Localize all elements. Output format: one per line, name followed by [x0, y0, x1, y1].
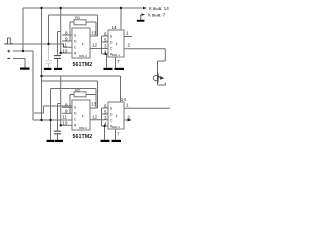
wire: C4 top lead	[57, 104, 59, 132]
svg-text:11: 11	[62, 114, 67, 119]
ground: lower left bar	[47, 140, 55, 142]
wire: pin 4 stub right lower FF	[102, 125, 109, 127]
ground: lower right FF R bar	[101, 140, 110, 142]
wire: pin 5 stub right lower FF	[102, 113, 108, 115]
flip-flop DD1.2 (561ТМ2) box	[72, 28, 90, 58]
wire: pin 8 stub DD2.2	[62, 106, 72, 108]
wire: pin 8 stub DD1.2	[62, 34, 72, 36]
wire: pin 1 stub upper right FF	[124, 36, 132, 38]
ground: minus input ground bar	[20, 68, 30, 70]
wire: R1 left lead down to pin 9	[69, 22, 71, 41]
wire: jog to decoupling cap C2	[58, 31, 61, 33]
wire: left drop from rail to + input	[22, 8, 24, 51]
wire: S/R tie right lower FF	[101, 108, 103, 126]
wire: resistor R1 right lead	[86, 21, 96, 23]
wire: lower loop second run right drop	[95, 89, 97, 109]
svg-text:1: 1	[126, 30, 129, 35]
wire: step vertical of set line	[43, 106, 45, 113]
wire: pin 2 stub lower with arrow	[124, 119, 128, 121]
svg-text:13: 13	[91, 30, 97, 35]
wire: loop drop to ground through clock node	[50, 89, 52, 140]
flip-flop DD2.2 (561ТМ2) box	[72, 100, 90, 130]
wire: + input line	[13, 50, 33, 52]
wire: pin 6 stub right upper FF	[102, 35, 109, 37]
wire: drop to lower right FF pin 14	[120, 76, 122, 102]
pin numbers DD1.1	[104, 25, 131, 64]
wire: input signal line to pin 11 of DD1.2	[4, 44, 72, 47]
svg-text:4: 4	[104, 49, 107, 54]
wire: element top lead	[157, 61, 159, 85]
wire: supply drop to lower S/R and cap C4	[60, 76, 62, 125]
wire: C4 bottom lead lower	[57, 134, 59, 140]
svg-text:13: 13	[91, 101, 97, 106]
ground: pin 7 bar lower	[112, 140, 122, 142]
wire: S/R tie right upper FF	[101, 36, 103, 54]
wire: rail drop at x=42.5 feeding lower half	[41, 8, 43, 120]
wire: pin 10 stub DD2.2	[61, 124, 72, 126]
wire: +supply top rail	[23, 7, 143, 9]
resistor R2	[74, 92, 86, 97]
svg-text:3: 3	[104, 116, 107, 121]
wire: pin 13 stub DD1.2	[90, 35, 98, 37]
resistor R1	[74, 20, 86, 25]
svg-text:10: 10	[62, 48, 68, 53]
wire: C2 bottom lead	[57, 58, 59, 67]
wire: element bottom hook	[158, 83, 166, 86]
svg-text:561ТМ2: 561ТМ2	[73, 62, 93, 68]
wire: pin 12 to pin 3 clock link lower	[90, 119, 108, 121]
pin numbers DD1.2	[62, 30, 97, 53]
wire: pin 9 stub DD2.2	[62, 112, 72, 114]
svg-text:DD1.1: DD1.1	[112, 53, 120, 57]
svg-text:4: 4	[104, 121, 107, 126]
svg-text:10: 10	[62, 120, 68, 125]
svg-text:8: 8	[65, 102, 68, 107]
wire: pin 10 stub DD1.2	[62, 52, 73, 54]
wire: pin 7 stub upper	[115, 57, 117, 68]
wire: input cap C1 bottom lead	[48, 63, 50, 67]
wire: input cap C1 top lead	[48, 44, 50, 60]
wire: set line of lower DD2.2	[44, 105, 73, 107]
wire: resistor R1 left lead	[70, 21, 74, 23]
flip-flop DD1.1 (right upper) box	[108, 30, 124, 57]
terminal: minus	[7, 58, 10, 60]
svg-text:5: 5	[104, 37, 107, 42]
capacitor C1 (input)	[45, 61, 52, 64]
diode/element VD at right	[153, 74, 164, 83]
terminal: plus	[7, 50, 10, 53]
wire: pin 12 to pin 3 clock link upper	[90, 48, 108, 50]
svg-text:12: 12	[92, 115, 98, 120]
ground: common wire symbol with arrow to pin 7	[137, 13, 146, 21]
svg-text:R1: R1	[75, 15, 81, 20]
wire: upper loop left drop to input line	[48, 15, 50, 44]
wire: lower loop right drop to pin 13	[97, 81, 99, 108]
wire: - input line	[13, 58, 25, 60]
wire: ground stub from pin 4 node	[106, 54, 108, 68]
wire: lower loop second run	[51, 88, 97, 90]
svg-text:DD1.2: DD1.2	[79, 54, 87, 58]
svg-text:12: 12	[92, 43, 98, 48]
wire: jog to element VD	[158, 60, 166, 62]
node: junction dots	[22, 7, 122, 127]
svg-text:7: 7	[117, 131, 120, 136]
arrow: output from pin 2 lower	[128, 119, 132, 122]
wire: pin 6 stub right lower FF	[102, 107, 109, 109]
svg-text:6: 6	[104, 103, 107, 108]
wire: - input to ground	[24, 59, 26, 68]
wire: resistor R2 left lead	[70, 94, 74, 96]
svg-text:К выв. 14: К выв. 14	[149, 6, 169, 11]
svg-text:561ТМ2: 561ТМ2	[73, 134, 93, 140]
wire: pin 5 stub right upper FF	[102, 41, 108, 43]
wire: C2 top lead	[57, 32, 59, 56]
svg-text:2: 2	[128, 42, 131, 47]
svg-text:11: 11	[62, 42, 67, 47]
svg-text:3: 3	[104, 44, 107, 49]
wire: pin 4 stub right upper FF	[102, 53, 109, 55]
wire: R1 right lead drop	[95, 22, 97, 36]
wire: R2 lead down to pin 9 of DD2.2	[69, 95, 71, 114]
wire: supply branch down left side	[32, 51, 34, 120]
svg-text:14: 14	[121, 97, 127, 102]
ground: upper left bar under DD1.1	[104, 68, 113, 70]
svg-text:К выв. 7: К выв. 7	[148, 13, 166, 18]
wire: rail drop x=61.5 to S/R of DD1.2	[60, 8, 62, 53]
ground: pin 7 bar upper	[115, 68, 125, 70]
ground: C1 ground bar	[44, 68, 52, 70]
wire: rail drop to upper right FF pin 14	[120, 8, 122, 30]
arrow: to pin 14 external	[143, 7, 147, 9]
wire: pin 2 line of upper right FF	[124, 48, 165, 50]
wire: pin 13 stub DD2.2	[90, 107, 98, 109]
wire: pin 9 stub DD1.2	[62, 40, 72, 42]
svg-text:1: 1	[126, 102, 129, 107]
svg-text:DD2.2: DD2.2	[79, 126, 87, 130]
wire: pin 2 net right vertical	[164, 49, 166, 61]
wire: upper feedback loop	[49, 14, 98, 16]
svg-text:R2: R2	[75, 88, 81, 93]
wire: resistor R2 right lead	[86, 94, 96, 96]
ground: C2 ground bar	[54, 68, 62, 70]
wire: clock line to lower DD2 pin 11	[33, 119, 72, 121]
wire: stub at y=113	[34, 112, 44, 114]
svg-text:7: 7	[117, 59, 120, 64]
pin numbers DD2.2	[62, 101, 97, 125]
svg-text:2: 2	[128, 114, 131, 119]
flip-flop DD2.1 (right lower) box	[108, 102, 124, 129]
capacitor C2	[54, 56, 61, 59]
wire: jog to cap C4	[58, 103, 61, 105]
pin numbers DD2.1	[104, 97, 131, 136]
input pulse symbol	[6, 38, 13, 44]
wire: ground stub lower right FF R pin	[104, 126, 106, 140]
svg-text:6: 6	[104, 31, 107, 36]
ground: C4 ground bar	[55, 140, 63, 142]
wire: pin 7 stub lower	[115, 129, 117, 140]
svg-text:8: 8	[65, 30, 68, 35]
svg-text:5: 5	[104, 109, 107, 114]
svg-text:14: 14	[112, 25, 118, 30]
wire: pin 1 output line lower	[124, 107, 170, 109]
svg-text:9: 9	[65, 108, 68, 113]
wire: supply feed to lower DD2.1 pin 14	[42, 75, 121, 77]
capacitor C4 lower	[54, 131, 61, 134]
svg-text:9: 9	[65, 36, 68, 41]
wire: upper loop right drop to pin 13	[97, 15, 99, 36]
svg-text:DD2.1: DD2.1	[112, 125, 120, 129]
wire: lower feedback loop upper run	[42, 80, 98, 82]
